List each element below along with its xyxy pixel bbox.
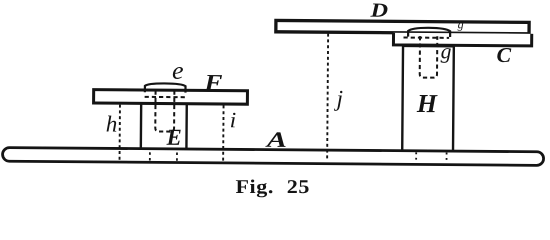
base bar A — [3, 148, 544, 166]
bar C (lower bar, right assembly) — [393, 33, 531, 46]
svg-text:D: D — [369, 0, 388, 22]
hidden seat line under cap e (dashed, inside bar F) — [145, 96, 187, 98]
tenon hidden lines of column H through base — [416, 152, 446, 160]
tenon hidden lines of left column through base — [150, 152, 177, 161]
svg-text:E: E — [166, 125, 182, 150]
cap g (dome on bar C) — [408, 28, 450, 37]
svg-text:g: g — [458, 17, 464, 31]
svg-text:C: C — [496, 43, 512, 67]
bar D (long upper bar, right assembly) — [276, 20, 529, 33]
svg-text:e: e — [172, 58, 184, 85]
hidden bolt E outline (dashed, through left column) — [155, 91, 174, 132]
svg-text:F: F — [203, 70, 222, 95]
svg-text:g: g — [441, 39, 452, 63]
dotted reference line i — [222, 105, 224, 162]
column H (right pedestal support) — [402, 46, 454, 154]
cap e (dome on bar F) — [145, 83, 186, 92]
column/post E (left pedestal support) — [141, 103, 187, 151]
bar F (left horizontal bar) — [94, 90, 248, 105]
svg-text:i: i — [230, 107, 237, 132]
svg-text:h: h — [106, 111, 118, 136]
hidden bolt g outline (dashed, through column H) — [420, 36, 438, 78]
hidden seat line under cap g (dashed, inside bar C) — [404, 37, 450, 39]
svg-text:Fig. 25: Fig. 25 — [236, 177, 311, 198]
svg-text:A: A — [264, 127, 287, 152]
svg-text:j: j — [333, 86, 343, 111]
dotted reference line h — [119, 105, 121, 162]
svg-text:H: H — [416, 89, 438, 118]
dotted reference line j — [326, 34, 329, 159]
